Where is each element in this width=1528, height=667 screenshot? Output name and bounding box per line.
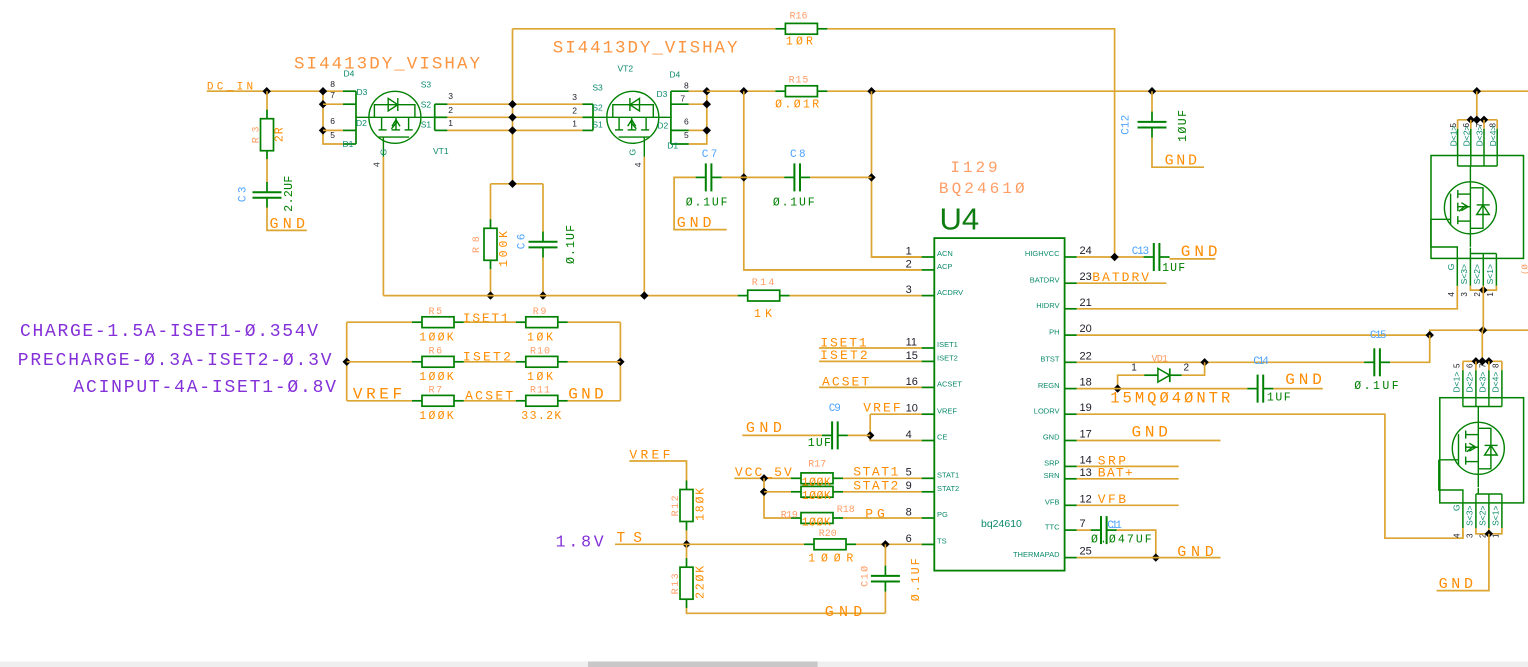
- wire VT1 drain pins tie: [323, 91, 343, 144]
- svg-text:D4: D4: [669, 70, 680, 80]
- junction R15 right / ACN tap: [867, 87, 875, 95]
- wire R16 left to common source: [513, 28, 776, 30]
- wire low-side gate stub to LODRV route: [1462, 528, 1464, 538]
- svg-text:D2: D2: [657, 121, 668, 131]
- wire BTST row: [1077, 361, 1364, 363]
- junction C12 top: [1148, 87, 1156, 95]
- svg-text:23: 23: [1080, 271, 1092, 283]
- wire common gate node: [383, 295, 737, 297]
- U4 pin 14 SRP stub: [1065, 465, 1077, 467]
- svg-text:D<3>: D<3>: [1478, 372, 1488, 393]
- svg-text:1ØK: 1ØK: [527, 331, 553, 344]
- svg-text:6: 6: [1466, 363, 1475, 368]
- svg-text:4: 4: [906, 429, 912, 441]
- svg-text:REGN: REGN: [1038, 381, 1060, 390]
- svg-text:16: 16: [906, 376, 918, 388]
- svg-text:2: 2: [572, 105, 577, 115]
- net label TS: [615, 531, 644, 547]
- svg-text:24: 24: [1080, 245, 1092, 257]
- wire R8 bottom lead: [490, 270, 492, 296]
- svg-text:1UF: 1UF: [1267, 392, 1291, 405]
- svg-text:G: G: [379, 149, 389, 156]
- net label GND (C9): [742, 420, 822, 437]
- svg-text:SI4413DY_VISHAY: SI4413DY_VISHAY: [294, 55, 480, 75]
- resistor R19: [791, 513, 843, 524]
- junction D tie c: [1480, 116, 1488, 124]
- svg-text:22ØK: 22ØK: [694, 566, 707, 599]
- svg-text:C14: C14: [1253, 356, 1269, 368]
- svg-text:C12: C12: [1121, 115, 1133, 135]
- svg-text:7: 7: [1080, 518, 1086, 530]
- svg-text:R10: R10: [530, 347, 550, 358]
- svg-text:R13: R13: [671, 573, 682, 594]
- svg-text:HIGHVCC: HIGHVCC: [1025, 249, 1060, 258]
- wire VT1 gate down to node: [382, 157, 384, 296]
- low-side D pin 5 stub: [1462, 370, 1464, 398]
- svg-text:HIDRV: HIDRV: [1036, 301, 1059, 310]
- svg-text:PH: PH: [1049, 327, 1059, 336]
- svg-text:VT1: VT1: [433, 146, 449, 156]
- svg-text:S<3>: S<3>: [1459, 264, 1469, 284]
- junction S1/vertical: [508, 126, 516, 134]
- wire VREF to R12: [670, 461, 686, 481]
- wire TS to R20: [644, 543, 805, 545]
- svg-text:17: 17: [1080, 429, 1092, 441]
- svg-text:GND: GND: [746, 420, 782, 437]
- junction high-side S tie: [1479, 286, 1487, 294]
- wire R13 top lead: [686, 544, 688, 558]
- wire C9 right to junction: [848, 434, 870, 436]
- junction left rail ISET2: [343, 358, 351, 366]
- wire VCC vertical feed: [764, 478, 791, 518]
- svg-text:S3: S3: [592, 83, 603, 93]
- svg-text:(Ø: (Ø: [1521, 264, 1528, 275]
- junction C9/VREF: [866, 431, 874, 439]
- resistor R7: [412, 395, 464, 406]
- svg-text:D4: D4: [344, 68, 355, 78]
- svg-text:G: G: [1451, 504, 1461, 511]
- svg-text:4: 4: [372, 162, 382, 167]
- svg-text:1UF: 1UF: [808, 437, 831, 450]
- svg-text:Ø.1UF: Ø.1UF: [1354, 380, 1399, 393]
- svg-text:19: 19: [1080, 402, 1092, 414]
- svg-text:3: 3: [448, 91, 453, 101]
- svg-text:2R: 2R: [274, 127, 287, 142]
- low-side MOSFET body box: [1440, 398, 1524, 503]
- svg-text:C1Ø: C1Ø: [860, 566, 872, 587]
- junction VT2 pin6: [703, 126, 711, 134]
- svg-text:R17: R17: [808, 459, 826, 470]
- svg-text:3: 3: [1460, 292, 1469, 297]
- resistor R17: [791, 473, 843, 484]
- svg-text:18ØK: 18ØK: [694, 488, 707, 521]
- junction VCC feed STAT2 row: [760, 488, 768, 496]
- svg-text:1: 1: [1486, 292, 1495, 297]
- resistor R18: [791, 486, 843, 497]
- svg-text:G: G: [1446, 264, 1456, 271]
- svg-text:D<2>: D<2>: [1465, 372, 1475, 393]
- U4 pin 23 BATDRV stub: [1065, 282, 1077, 284]
- svg-text:R20: R20: [819, 529, 837, 540]
- svg-text:STAT1: STAT1: [937, 471, 959, 480]
- svg-text:S<1>: S<1>: [1490, 506, 1500, 526]
- svg-text:33.2K: 33.2K: [521, 410, 561, 423]
- capacitor C6: [529, 232, 558, 258]
- svg-text:GND: GND: [1177, 544, 1214, 561]
- svg-text:GND: GND: [1439, 576, 1473, 593]
- junction R8 bottom: [486, 291, 494, 299]
- svg-text:25: 25: [1080, 546, 1092, 558]
- transistor VT1 symbol: [356, 91, 434, 157]
- wire rail VT2 to R15: [707, 90, 776, 92]
- wire VD1 cathode to BTST: [1182, 362, 1205, 375]
- svg-text:13: 13: [1080, 467, 1092, 479]
- svg-text:S<1>: S<1>: [1485, 264, 1495, 284]
- svg-text:D<3>: D<3>: [1475, 126, 1485, 147]
- svg-text:D2: D2: [356, 118, 367, 128]
- wire REGN row to C14: [1077, 388, 1248, 390]
- low-side D pin 7 stub: [1488, 370, 1490, 398]
- U4 pin 3 ACDRV stub: [922, 295, 935, 297]
- high-side internal S tie: [1470, 248, 1496, 259]
- U4 pin 22 BTST stub: [1065, 361, 1077, 363]
- svg-text:TS: TS: [937, 537, 947, 546]
- svg-text:S<3>: S<3>: [1464, 506, 1474, 526]
- junction C6 bottom: [539, 291, 547, 299]
- svg-text:R14: R14: [752, 278, 775, 289]
- wire C15 to PH tap: [1390, 335, 1430, 362]
- junction low D tie a: [1472, 357, 1480, 365]
- resistor R9: [516, 317, 568, 328]
- net label DC_IN: [207, 82, 267, 94]
- svg-text:7: 7: [1479, 363, 1488, 368]
- low-side D pin 6 stub: [1475, 370, 1477, 398]
- wire VT2 pin7 to tie: [689, 103, 707, 105]
- net label GND (THERMAPAD): [1077, 544, 1221, 561]
- net label VREF (pin10): [863, 401, 900, 416]
- svg-text:Ø.1UF: Ø.1UF: [686, 197, 728, 210]
- svg-text:LODRV: LODRV: [1034, 406, 1060, 415]
- net label GND (C13): [1170, 243, 1218, 261]
- wire HIDRV to top MOSFET gate: [1077, 286, 1458, 309]
- junction S3/vertical: [508, 100, 516, 108]
- svg-text:R15: R15: [789, 76, 809, 87]
- wire high-side D pin 6 drop: [1470, 120, 1472, 129]
- wire S2 net VT1-VT2: [447, 116, 582, 118]
- wire C7 left to GND: [674, 177, 727, 229]
- svg-text:CE: CE: [937, 433, 947, 442]
- svg-text:6: 6: [906, 533, 912, 545]
- net label STAT1: [843, 464, 922, 479]
- svg-text:D1: D1: [343, 139, 354, 149]
- resistor R15: [775, 86, 827, 97]
- wire high-side D pin 8 drop: [1496, 120, 1498, 129]
- resistor R13: [680, 558, 693, 608]
- svg-text:BTST: BTST: [1040, 355, 1060, 364]
- wire R8/C6 top tie: [491, 183, 544, 185]
- resistor R10: [516, 356, 568, 367]
- junction VT1 pin7: [319, 100, 327, 108]
- svg-text:R19: R19: [781, 510, 798, 521]
- resistor R14: [738, 290, 790, 301]
- svg-text:11: 11: [906, 336, 917, 348]
- capacitor C10: [871, 566, 900, 592]
- svg-text:12: 12: [1080, 493, 1092, 505]
- svg-text:3: 3: [906, 284, 912, 296]
- high-side S pin stubs: [1457, 258, 1496, 285]
- svg-text:Ø.1UF: Ø.1UF: [773, 197, 815, 210]
- wire ACP to pin 2: [744, 269, 922, 271]
- wire R8 top lead: [490, 184, 492, 220]
- wire C7 right to ACP: [722, 176, 744, 178]
- svg-text:D<2>: D<2>: [1462, 126, 1472, 147]
- net label GND (pin17): [1077, 424, 1221, 442]
- svg-text:8: 8: [330, 79, 335, 89]
- svg-text:14: 14: [1080, 454, 1092, 466]
- junction source node/tie: [508, 180, 516, 188]
- svg-text:D<1>: D<1>: [1448, 126, 1458, 147]
- svg-text:ACN: ACN: [937, 249, 953, 258]
- wire S1 net VT1-VT2: [447, 129, 582, 131]
- junction TS row: [682, 540, 690, 548]
- junction low-side S tie: [1485, 530, 1493, 538]
- wire VT1 pin7 stub: [323, 103, 343, 105]
- wire VREF rail left: [346, 322, 348, 401]
- svg-text:1UF: 1UF: [1162, 262, 1185, 275]
- junction VT2 pin8/rail: [703, 87, 711, 95]
- wire right rail: [619, 322, 621, 401]
- wire C10 bottom to GND row: [884, 592, 886, 614]
- net label BAT+: [1077, 466, 1179, 481]
- junction D tie b: [1473, 116, 1481, 124]
- U4 pin 25 THERMAPAD stub: [1065, 557, 1077, 559]
- U4 pin 21 HIDRV stub: [1065, 308, 1077, 310]
- resistor R12: [680, 481, 693, 531]
- svg-text:D3: D3: [357, 87, 368, 97]
- high-side D pin 7 stub: [1483, 129, 1485, 156]
- wire high-side D pin 7 drop: [1483, 120, 1485, 129]
- low-side S pin stubs: [1463, 503, 1502, 528]
- high-side D pin 5 stub: [1457, 129, 1459, 156]
- junction low D tie c: [1485, 357, 1493, 365]
- U4 pin 10 VREF stub: [922, 413, 935, 415]
- transistor low-side symbol: [1439, 409, 1505, 487]
- svg-text:2: 2: [906, 258, 912, 270]
- svg-text:1ØK: 1ØK: [527, 371, 553, 384]
- svg-text:Ø.1UF: Ø.1UF: [910, 558, 923, 601]
- U4 pin 5 STAT1 stub: [922, 477, 935, 479]
- svg-text:PG: PG: [937, 510, 948, 519]
- svg-text:bq24610: bq24610: [981, 518, 1022, 530]
- U4 pin 1 ACN stub: [922, 256, 935, 258]
- svg-text:6: 6: [330, 116, 335, 126]
- junction HIGHVCC/R16: [1110, 253, 1118, 261]
- svg-text:3: 3: [1465, 533, 1474, 538]
- wire ISET1 row right: [568, 321, 621, 323]
- wire R12 bottom to TS row: [686, 530, 688, 544]
- svg-text:C15: C15: [1370, 330, 1387, 342]
- svg-text:D<1>: D<1>: [1452, 372, 1462, 393]
- resistor R16: [775, 23, 827, 34]
- svg-text:2.2UF: 2.2UF: [283, 176, 296, 212]
- wire low-side D tie: [1463, 360, 1502, 362]
- U4 pin 19 LODRV stub: [1065, 413, 1077, 415]
- svg-text:21: 21: [1080, 297, 1092, 309]
- wire VREF to pin 10: [901, 413, 922, 415]
- wire C10 top lead: [884, 544, 886, 566]
- capacitor C13: [1144, 243, 1170, 271]
- svg-text:1ØUF: 1ØUF: [1177, 110, 1190, 142]
- svg-text:ACINPUT-4A-ISET1-Ø.8V: ACINPUT-4A-ISET1-Ø.8V: [73, 378, 336, 398]
- svg-text:VREF: VREF: [937, 406, 957, 415]
- svg-text:R12: R12: [671, 495, 682, 516]
- junction VT1 pin8: [319, 87, 327, 95]
- transistor high-side symbol: [1431, 169, 1497, 247]
- U4 pin 15 ISET2 stub: [922, 360, 935, 362]
- net label GND (network): [568, 386, 621, 404]
- svg-text:ISET1: ISET1: [937, 340, 958, 349]
- svg-text:2: 2: [448, 105, 453, 115]
- svg-text:S2: S2: [592, 103, 603, 113]
- wire low-side S tie: [1476, 528, 1502, 534]
- junction low D tie b: [1478, 357, 1486, 365]
- wire high-side D tie: [1458, 119, 1498, 121]
- wire source node down: [512, 183, 514, 185]
- svg-text:4: 4: [633, 162, 643, 167]
- wire C6 top lead: [542, 184, 544, 232]
- svg-text:SRP: SRP: [1044, 459, 1059, 468]
- net label VCC_5V: [734, 465, 792, 480]
- U4 pin 16 ACSET stub: [922, 386, 935, 388]
- svg-text:1: 1: [906, 245, 912, 257]
- svg-text:U4: U4: [940, 201, 980, 236]
- wire VT2 gate down to node: [643, 157, 645, 296]
- wire high-side S feed to PH: [1482, 286, 1484, 330]
- svg-text:PRECHARGE-Ø.3A-ISET2-Ø.3V: PRECHARGE-Ø.3A-ISET2-Ø.3V: [18, 351, 332, 371]
- low-side internal D tie: [1463, 398, 1502, 410]
- wire TTC to C11: [1077, 529, 1091, 531]
- IC U4 BQ24610 body: [934, 238, 1064, 570]
- U4 pin 9 STAT2 stub: [922, 491, 935, 493]
- low-side internal S tie: [1476, 488, 1502, 503]
- svg-text:VFB: VFB: [1045, 498, 1060, 507]
- svg-text:CHARGE-1.5A-ISET1-Ø.354V: CHARGE-1.5A-ISET1-Ø.354V: [20, 322, 318, 342]
- svg-text:S3: S3: [421, 79, 432, 89]
- wire VT2 pin6 to tie: [689, 129, 707, 131]
- wire low-side D pin 8 drop: [1501, 361, 1503, 370]
- net label ACSET: [464, 389, 516, 404]
- capacitor C8: [784, 163, 810, 191]
- svg-text:TTC: TTC: [1045, 522, 1060, 531]
- wire PH feed down to low-side D tie: [1481, 330, 1483, 361]
- VT2 drain bracket: [671, 91, 689, 144]
- svg-text:VD1: VD1: [1152, 354, 1169, 365]
- junction VT2 gate/node: [640, 291, 648, 299]
- low-side D pin 8 stub: [1501, 370, 1503, 398]
- wire VREF down to CE: [870, 414, 921, 440]
- svg-text:ACSET: ACSET: [937, 380, 962, 389]
- svg-text:9: 9: [906, 480, 912, 492]
- wire ACP vertical: [744, 91, 922, 270]
- U4 pin 4 CE stub: [922, 440, 935, 442]
- resistor R3: [261, 110, 274, 160]
- svg-text:R11: R11: [530, 386, 550, 397]
- svg-text:18: 18: [1080, 377, 1092, 389]
- svg-text:S2: S2: [421, 99, 432, 109]
- wire ISET2 row left: [347, 361, 413, 363]
- svg-text:D3: D3: [657, 89, 668, 99]
- svg-text:R7: R7: [429, 386, 443, 397]
- svg-text:5: 5: [330, 130, 335, 140]
- svg-text:8: 8: [684, 80, 689, 90]
- U4 pin 24 HIGHVCC stub: [1065, 256, 1077, 258]
- U4 pin 6 TS stub: [922, 543, 935, 545]
- U4 pin 8 PG stub: [922, 517, 935, 519]
- svg-text:S<2>: S<2>: [1472, 264, 1482, 284]
- svg-text:STAT1: STAT1: [853, 464, 898, 479]
- svg-text:GND: GND: [677, 215, 712, 232]
- wire C3 to GND: [267, 208, 307, 231]
- U4 pin 7 TTC stub: [1065, 529, 1077, 531]
- svg-text:1ØR: 1ØR: [786, 36, 813, 49]
- net label BATDRV: [1077, 270, 1167, 285]
- junction D tie a: [1467, 116, 1475, 124]
- svg-text:ISET1: ISET1: [463, 311, 509, 326]
- wire ISET1 row left: [347, 321, 413, 323]
- resistor R6: [412, 356, 464, 367]
- junction THERMAPAD/C11: [1152, 553, 1160, 561]
- resistor R11: [516, 395, 568, 406]
- svg-text:STAT2: STAT2: [937, 484, 959, 493]
- net label VFB: [1077, 492, 1179, 507]
- junction right rail ISET2: [616, 358, 624, 366]
- svg-text:1: 1: [572, 118, 577, 128]
- wire R13 bottom GND row: [687, 608, 886, 613]
- svg-text:S1: S1: [592, 120, 603, 130]
- wire low-side D pin 7 drop: [1488, 361, 1490, 370]
- svg-text:7: 7: [330, 90, 335, 100]
- VT1 source bracket: [435, 104, 448, 130]
- svg-text:SI4413DY_VISHAY: SI4413DY_VISHAY: [553, 39, 738, 59]
- svg-text:SRN: SRN: [1044, 471, 1060, 480]
- svg-text:R16: R16: [790, 12, 808, 23]
- U4 pin 12 VFB stub: [1065, 504, 1077, 506]
- junction C10 top: [881, 540, 889, 548]
- svg-text:1ØØK: 1ØØK: [802, 516, 831, 529]
- svg-text:1: 1: [1131, 362, 1137, 373]
- capacitor C7: [696, 163, 722, 191]
- svg-text:GND: GND: [1285, 371, 1322, 389]
- svg-text:D<4>: D<4>: [1488, 126, 1498, 147]
- wire low-side D pin 5 drop: [1462, 361, 1464, 370]
- junction C8 right on ACN: [867, 173, 875, 181]
- wire S3 net VT1-VT2: [447, 103, 582, 105]
- svg-text:ACDRV: ACDRV: [937, 288, 963, 297]
- net label STAT2: [843, 479, 922, 494]
- wire C8 right to ACN: [810, 176, 871, 178]
- high-side D pin 6 stub: [1470, 129, 1472, 156]
- svg-text:15: 15: [906, 350, 918, 362]
- svg-text:5: 5: [684, 130, 689, 140]
- wire common source vertical: [512, 29, 514, 184]
- wire R15 right to C12 and onward: [827, 90, 1528, 92]
- svg-text:GND: GND: [825, 604, 863, 621]
- VT2 source bracket: [583, 104, 594, 130]
- svg-text:THERMAPAD: THERMAPAD: [1013, 550, 1060, 559]
- resistor R5: [412, 317, 464, 328]
- wire R16 right down to HIGHVCC: [827, 29, 1114, 257]
- wire ISET2 row right: [568, 361, 621, 363]
